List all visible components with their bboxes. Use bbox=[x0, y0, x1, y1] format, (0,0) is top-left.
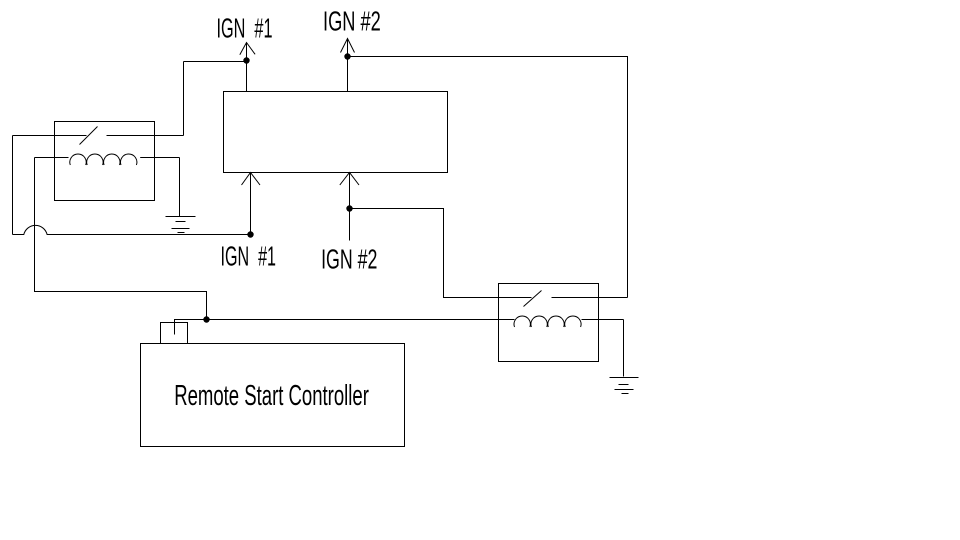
wire: IGN #2 node to relay K2 switch left contact bbox=[350, 209, 532, 298]
wire: relay K1 coil right terminal to ground bbox=[179, 158, 181, 217]
relay K2 switch blade bbox=[524, 291, 542, 307]
svg-text:IGN #2: IGN #2 bbox=[323, 6, 381, 37]
wire: horizontal to IGN #1 top node bbox=[184, 61, 247, 63]
node: IGN #1 top junction bbox=[243, 57, 249, 63]
main control box bbox=[224, 92, 448, 173]
connector tab on controller bbox=[161, 323, 188, 344]
arrow IGN #1 (top) bbox=[240, 43, 255, 55]
wire: relay K1 switch right contact up to IGN #1 node bbox=[183, 62, 185, 136]
relay K2 box bbox=[499, 284, 599, 362]
wire: IGN #2 input stem bbox=[349, 173, 351, 241]
relay K1 box bbox=[55, 122, 155, 201]
wire: feed node to relay K2 coil and connector stub bbox=[175, 320, 515, 335]
remote start controller box bbox=[141, 344, 405, 447]
relay K2 coil bbox=[514, 316, 624, 327]
node: coil feed junction bbox=[203, 316, 209, 322]
wire: IGN #1 output stem into main box bbox=[246, 43, 248, 92]
wire: relay K2 coil right terminal to ground bbox=[623, 320, 625, 377]
arrow IGN #2 (top) bbox=[341, 39, 355, 53]
wire: bottom run with hop to IGN #1 input node bbox=[13, 225, 251, 234]
node: IGN #2 input junction bbox=[346, 205, 352, 211]
relay K1 switch blade bbox=[80, 127, 98, 145]
node: IGN #1 input junction bbox=[247, 231, 253, 237]
svg-text:IGN #2: IGN #2 bbox=[321, 244, 377, 275]
relay K1 switch right contact bbox=[107, 135, 184, 137]
arrow IGN #2 (into box bottom) bbox=[340, 173, 359, 186]
arrow IGN #1 (into box bottom) bbox=[242, 173, 261, 186]
relay K1 coil bbox=[35, 154, 180, 165]
wire: relay K1 switch left contact down left side bbox=[12, 136, 14, 235]
ground (left) bbox=[166, 217, 196, 233]
wire: IGN #2 output stem into main box bbox=[347, 39, 349, 92]
svg-text:IGN #1: IGN #1 bbox=[221, 241, 277, 272]
wire: relay K1 coil left terminal down and across to feed node bbox=[35, 158, 207, 320]
svg-text:Remote Start Controller: Remote Start Controller bbox=[174, 380, 369, 412]
ground (right) bbox=[610, 378, 639, 394]
svg-text:IGN #1: IGN #1 bbox=[217, 12, 273, 43]
relay K1 switch left contact bbox=[13, 135, 87, 137]
wire: IGN #1 input stem to main box bbox=[250, 173, 252, 235]
node: IGN #2 top junction bbox=[344, 53, 350, 59]
wire: IGN #2 top node to relay K2 switch (right contact) bbox=[348, 57, 628, 298]
relay K2 switch right contact bbox=[552, 297, 628, 299]
